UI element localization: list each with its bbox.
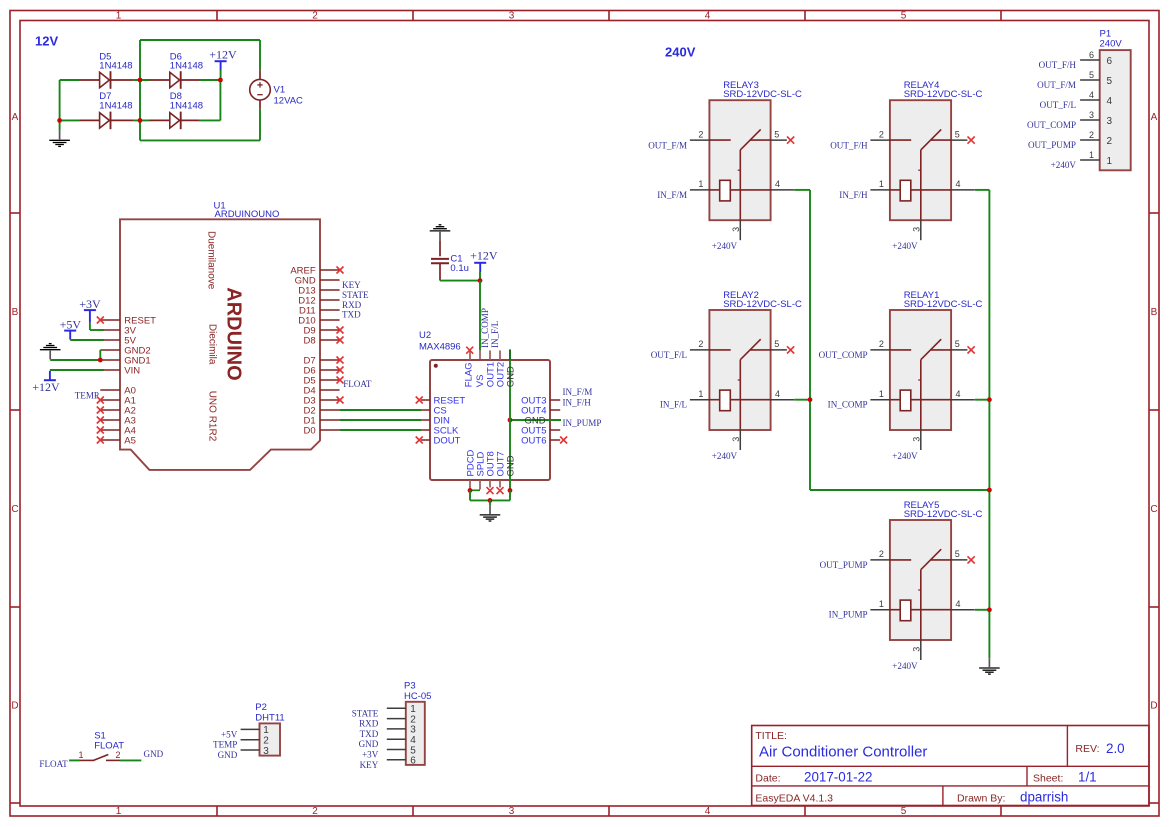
svg-text:1N4148: 1N4148 [99, 101, 132, 112]
svg-text:UNO R1R2: UNO R1R2 [207, 391, 218, 442]
svg-text:Air Conditioner Controller: Air Conditioner Controller [759, 743, 927, 760]
svg-text:IN_PUMP: IN_PUMP [829, 610, 868, 620]
svg-text:ARDUINOUNO: ARDUINOUNO [215, 209, 280, 220]
svg-text:IN_F/H: IN_F/H [839, 190, 868, 200]
svg-text:240V: 240V [665, 45, 696, 60]
svg-text:4: 4 [705, 806, 711, 817]
svg-text:5: 5 [1089, 70, 1094, 80]
svg-text:1: 1 [116, 806, 122, 817]
svg-text:12V: 12V [35, 34, 58, 49]
svg-text:1: 1 [1089, 150, 1094, 160]
svg-text:3: 3 [509, 806, 515, 817]
svg-text:VS: VS [475, 375, 486, 388]
svg-text:D0: D0 [304, 426, 316, 437]
svg-text:2: 2 [312, 806, 318, 817]
svg-text:B: B [12, 307, 19, 318]
svg-text:C: C [11, 504, 18, 515]
svg-text:Sheet:: Sheet: [1033, 773, 1063, 785]
svg-text:MAX4896: MAX4896 [419, 342, 461, 353]
svg-text:12VAC: 12VAC [274, 95, 304, 106]
svg-text:4: 4 [1107, 96, 1113, 107]
svg-text:A: A [12, 112, 19, 123]
svg-text:+12V: +12V [209, 47, 237, 61]
svg-text:OUT_COMP: OUT_COMP [1027, 120, 1076, 130]
svg-text:SRD-12VDC-SL-C: SRD-12VDC-SL-C [904, 299, 983, 310]
svg-text:OUT_COMP: OUT_COMP [819, 350, 868, 360]
svg-text:VIN: VIN [124, 366, 140, 377]
svg-text:240V: 240V [1100, 39, 1123, 50]
svg-text:OUT_F/H: OUT_F/H [830, 140, 868, 150]
svg-text:IN_F/M: IN_F/M [563, 387, 593, 397]
svg-text:TXD: TXD [342, 310, 361, 320]
svg-text:D: D [1150, 701, 1157, 712]
svg-text:V1: V1 [274, 85, 286, 96]
svg-text:6: 6 [1107, 56, 1113, 67]
svg-text:4: 4 [705, 10, 711, 21]
svg-text:1N4148: 1N4148 [99, 61, 132, 72]
svg-text:+12V: +12V [32, 380, 60, 394]
svg-text:DHT11: DHT11 [255, 713, 284, 724]
svg-text:C: C [1150, 504, 1157, 515]
svg-text:1: 1 [1107, 156, 1113, 167]
svg-text:KEY: KEY [360, 760, 379, 770]
svg-text:2: 2 [115, 750, 120, 760]
svg-text:5: 5 [1107, 76, 1113, 87]
svg-text:+3V: +3V [79, 297, 101, 311]
svg-text:Drawn By:: Drawn By: [957, 792, 1005, 804]
svg-text:OUT_PUMP: OUT_PUMP [1028, 140, 1076, 150]
svg-text:STATE: STATE [352, 708, 379, 718]
svg-text:TXD: TXD [360, 729, 379, 739]
svg-text:SRD-12VDC-SL-C: SRD-12VDC-SL-C [723, 299, 802, 310]
svg-text:D: D [11, 701, 18, 712]
svg-text:FLOAT: FLOAT [39, 759, 68, 769]
svg-text:IN_F/H: IN_F/H [563, 397, 592, 407]
svg-text:A5: A5 [124, 436, 136, 447]
svg-text:OUT6: OUT6 [521, 436, 546, 447]
svg-text:RXD: RXD [359, 719, 379, 729]
svg-text:DOUT: DOUT [434, 436, 461, 447]
svg-text:SRD-12VDC-SL-C: SRD-12VDC-SL-C [904, 509, 983, 520]
svg-text:0.1u: 0.1u [450, 263, 469, 274]
svg-text:OUT_F/L: OUT_F/L [1040, 100, 1077, 110]
svg-text:1: 1 [78, 750, 83, 760]
svg-text:GND: GND [506, 366, 517, 387]
svg-text:2: 2 [1107, 136, 1113, 147]
svg-text:IN_PUMP: IN_PUMP [563, 418, 602, 428]
svg-text:+12V: +12V [470, 248, 498, 262]
svg-text:KEY: KEY [342, 280, 361, 290]
svg-text:OUT_F/M: OUT_F/M [1037, 80, 1076, 90]
svg-text:IN_F/M: IN_F/M [657, 190, 687, 200]
svg-text:1/1: 1/1 [1078, 770, 1097, 785]
svg-text:3: 3 [1089, 110, 1094, 120]
svg-text:P3: P3 [404, 681, 416, 692]
svg-text:+240V: +240V [1051, 160, 1077, 170]
svg-text:dparrish: dparrish [1020, 790, 1068, 805]
svg-text:U2: U2 [419, 330, 431, 341]
svg-text:GND: GND [359, 739, 379, 749]
svg-text:6: 6 [410, 756, 416, 767]
svg-text:1N4148: 1N4148 [170, 61, 203, 72]
svg-text:FLAG: FLAG [463, 362, 474, 387]
svg-text:1N4148: 1N4148 [170, 101, 203, 112]
svg-text:OUT_F/L: OUT_F/L [651, 350, 688, 360]
svg-text:RXD: RXD [342, 300, 362, 310]
svg-text:OUT_PUMP: OUT_PUMP [820, 560, 868, 570]
svg-text:EasyEDA V4.1.3: EasyEDA V4.1.3 [755, 792, 833, 804]
svg-text:IN_F/L: IN_F/L [660, 400, 688, 410]
svg-text:2: 2 [1089, 130, 1094, 140]
svg-text:TEMP: TEMP [75, 391, 99, 401]
svg-text:OUT_F/M: OUT_F/M [648, 140, 687, 150]
svg-text:GND: GND [218, 750, 238, 760]
svg-text:B: B [1151, 307, 1158, 318]
svg-text:Date:: Date: [755, 773, 780, 785]
svg-text:GND: GND [144, 749, 164, 759]
svg-text:6: 6 [1089, 50, 1094, 60]
svg-text:IN_COMP: IN_COMP [828, 400, 868, 410]
svg-text:5: 5 [901, 806, 907, 817]
svg-text:Duemilanove: Duemilanove [205, 231, 216, 290]
svg-text:1: 1 [116, 10, 122, 21]
svg-text:SRD-12VDC-SL-C: SRD-12VDC-SL-C [904, 89, 983, 100]
svg-text:2: 2 [312, 10, 318, 21]
svg-text:TITLE:: TITLE: [755, 730, 787, 742]
svg-text:OUT_F/H: OUT_F/H [1039, 60, 1077, 70]
svg-text:P2: P2 [255, 702, 267, 713]
svg-text:+5V: +5V [60, 318, 82, 332]
svg-text:3: 3 [509, 10, 515, 21]
svg-text:IN_COMP: IN_COMP [480, 308, 490, 348]
svg-text:ARDUINO: ARDUINO [222, 287, 244, 380]
svg-text:TEMP: TEMP [213, 740, 237, 750]
svg-text:+3V: +3V [362, 750, 379, 760]
svg-text:STATE: STATE [342, 290, 369, 300]
svg-text:D8: D8 [304, 336, 316, 347]
svg-text:IN_F/L: IN_F/L [490, 320, 500, 348]
svg-text:+5V: +5V [221, 729, 238, 739]
svg-text:2017-01-22: 2017-01-22 [804, 770, 873, 785]
svg-text:3: 3 [263, 746, 269, 757]
svg-text:GND: GND [524, 416, 545, 427]
svg-text:FLOAT: FLOAT [343, 379, 372, 389]
svg-text:A: A [1151, 112, 1158, 123]
svg-text:2.0: 2.0 [1106, 741, 1125, 756]
svg-text:GND: GND [506, 455, 517, 476]
svg-text:4: 4 [1089, 90, 1094, 100]
svg-text:Diecimila: Diecimila [207, 324, 218, 365]
svg-text:3: 3 [1107, 116, 1113, 127]
svg-text:5: 5 [901, 10, 907, 21]
svg-text:SRD-12VDC-SL-C: SRD-12VDC-SL-C [723, 89, 802, 100]
svg-text:HC-05: HC-05 [404, 691, 431, 702]
svg-text:REV:: REV: [1075, 743, 1099, 755]
